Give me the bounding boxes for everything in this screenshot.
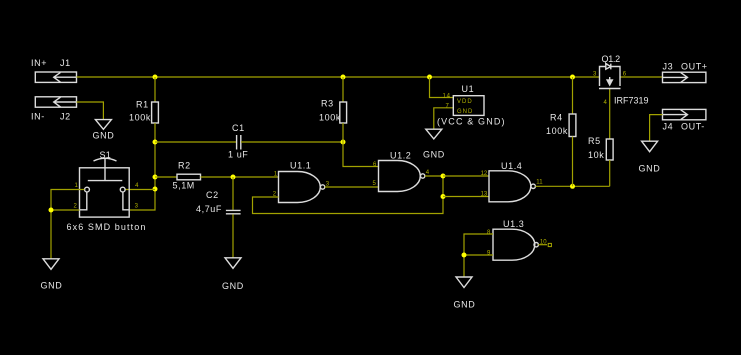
svg-text:IN+: IN+ [31, 58, 47, 68]
wire main top net [77, 76, 600, 78]
ground (U1.3) [454, 277, 476, 310]
wire U1.3 inputs tied [464, 234, 493, 277]
node junction (572.5,186.3) [570, 184, 575, 189]
wire to U1.4 pin12 [443, 175, 489, 177]
node junction (233,177) [231, 175, 236, 180]
svg-text:Q1.2: Q1.2 [602, 54, 621, 64]
svg-text:C2: C2 [206, 190, 219, 200]
svg-text:5,1M: 5,1M [173, 181, 195, 191]
connector J2 [35, 97, 76, 107]
op-amp U1.3 nand gate [487, 219, 547, 260]
node junction (51,210) [49, 208, 54, 213]
svg-text:11: 11 [536, 180, 543, 186]
svg-text:R5: R5 [588, 136, 601, 146]
svg-text:U1: U1 [462, 84, 475, 94]
resistor R2 [173, 161, 201, 191]
wire C1 right [241, 141, 343, 143]
svg-text:U1.3: U1.3 [503, 219, 524, 229]
wire R1 vertical [154, 77, 156, 102]
svg-text:1 uF: 1 uF [228, 150, 248, 160]
wire S1 pin4 [125, 189, 155, 191]
wire R4 vertical top [572, 77, 574, 114]
svg-text:GND: GND [454, 300, 476, 310]
svg-text:U1.4: U1.4 [501, 161, 522, 171]
svg-text:GND: GND [639, 164, 661, 174]
wire Q1 to J3 [620, 76, 663, 78]
svg-text:100k: 100k [129, 113, 151, 123]
svg-text:IN-: IN- [31, 112, 45, 122]
transistor Q1.2 [593, 54, 649, 106]
svg-text:100k: 100k [546, 126, 568, 136]
svg-text:13: 13 [481, 192, 488, 198]
svg-text:100k: 100k [319, 113, 341, 123]
ground (C2) [222, 258, 244, 291]
svg-text:VDD: VDD [457, 99, 473, 105]
svg-text:J2: J2 [60, 112, 71, 122]
wire R4 bottom [572, 137, 574, 187]
switch S1 [67, 150, 147, 232]
svg-text:J1: J1 [60, 58, 71, 68]
node junction top at U1 power [427, 75, 432, 80]
node junction (443,196.5) [441, 194, 446, 199]
node junction top at R4 [570, 75, 575, 80]
svg-text:GND: GND [457, 109, 473, 115]
svg-text:4,7uF: 4,7uF [196, 204, 222, 214]
svg-text:OUT-: OUT- [681, 122, 705, 132]
wire U1.2 out [425, 175, 443, 177]
resistor R3 [319, 99, 347, 124]
capacitor C1 [228, 123, 248, 160]
svg-text:U1.1: U1.1 [290, 161, 311, 171]
svg-text:U1.2: U1.2 [390, 151, 411, 161]
op-amp U1.1 nand gate [273, 161, 330, 203]
svg-text:(VCC & GND): (VCC & GND) [437, 117, 506, 127]
ground (J2) [93, 120, 115, 141]
svg-text:R3: R3 [321, 99, 334, 109]
node junction (155,177) [153, 175, 158, 180]
wire J4 to ground [650, 115, 663, 141]
wire R1 bottom [129, 123, 155, 210]
node junction (343,142) [341, 140, 346, 145]
svg-text:GND: GND [41, 281, 63, 291]
ground (J4) [639, 141, 661, 173]
wire U1.4 out to R5 [535, 185, 609, 187]
svg-text:6x6 SMD button: 6x6 SMD button [67, 222, 147, 232]
no-connect square U1.3 pin10 [548, 243, 551, 246]
svg-text:R1: R1 [136, 100, 149, 110]
svg-text:J4: J4 [663, 122, 674, 132]
op-amp U1.2 nand gate [373, 151, 430, 192]
wire J2 to ground [77, 102, 104, 120]
wire R2 right to U1.1 pin1 [201, 176, 279, 178]
node junction (155,189) [153, 187, 158, 192]
svg-text:IRF7319: IRF7319 [614, 96, 649, 106]
svg-text:12: 12 [481, 171, 488, 177]
wire R2 left [155, 176, 177, 178]
svg-text:10k: 10k [588, 150, 604, 160]
ground (U1 pin7) [423, 129, 445, 159]
wire S1 pin1/pin2 to ground [51, 190, 84, 260]
svg-text:R2: R2 [178, 161, 191, 171]
svg-text:GND: GND [222, 281, 244, 291]
wire to U1.4 pin13 [443, 196, 489, 198]
node junction (443,176) [441, 174, 446, 179]
wire C1 left [155, 141, 236, 143]
connector J3 [663, 62, 708, 83]
wire C2 bottom [232, 214, 234, 258]
svg-text:C1: C1 [232, 123, 245, 133]
wire R5 bottom [609, 160, 611, 186]
capacitor C2 [196, 190, 241, 214]
svg-text:OUT+: OUT+ [681, 62, 708, 72]
svg-text:J3: J3 [663, 62, 674, 72]
node junction (464,255) [462, 253, 467, 258]
svg-text:S1: S1 [100, 150, 112, 160]
wire C2 top [232, 177, 234, 210]
block U1 power [430, 77, 506, 129]
wire U1.1 pin2 feedback [253, 176, 444, 214]
connector J1 [35, 72, 76, 82]
wire U1.1 out to U1.2 pin5 [325, 186, 379, 188]
wire R3 bottom to U1.2 pin6 [343, 123, 379, 167]
svg-text:14: 14 [443, 94, 451, 100]
svg-text:GND: GND [423, 150, 445, 160]
resistor R1 [129, 100, 158, 124]
node junction (155,142) [153, 140, 158, 145]
resistor R4 [546, 113, 576, 137]
wire R3 vertical top [342, 77, 344, 102]
connector J4 [663, 109, 706, 131]
svg-text:R4: R4 [550, 113, 563, 123]
ground (S1) [41, 259, 63, 291]
node junction top at R3 [341, 75, 346, 80]
svg-text:GND: GND [93, 131, 115, 141]
op-amp U1.4 nand gate [481, 161, 544, 202]
node junction top at R1 [153, 75, 158, 80]
wire U1.3 output stub [538, 244, 547, 246]
wire R5 top to Q1 gate [609, 89, 611, 139]
resistor R5 [588, 136, 613, 160]
